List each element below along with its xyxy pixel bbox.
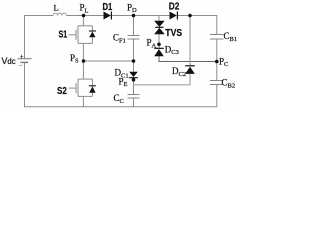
wire junction down to DC1: [133, 61, 135, 72]
node junction PS row middle column: [132, 59, 136, 63]
svg-text:DC3: DC3: [165, 44, 179, 56]
wire CF1 to PS-row junction: [133, 39, 135, 61]
svg-text:CC: CC: [114, 93, 124, 105]
dc source Vdc: [18, 53, 32, 65]
wire CB1 to CB2 through PC: [216, 39, 218, 81]
svg-text:PD: PD: [127, 2, 137, 14]
svg-text:PS: PS: [70, 53, 79, 65]
svg-text:+: +: [20, 53, 24, 61]
diode DC2: [185, 66, 195, 74]
svg-text:CB2: CB2: [222, 78, 236, 90]
switch S2 MOSFET: [69, 79, 93, 96]
wire CC to bottom rail: [133, 98, 135, 107]
svg-text:DC2: DC2: [172, 66, 186, 78]
wire D2 to top-right corner: [178, 15, 218, 17]
node PL: [82, 14, 86, 18]
node PC: [215, 60, 219, 64]
capacitor CB2: [210, 81, 224, 85]
svg-text:Vdc: Vdc: [2, 56, 16, 66]
diode DC3: [154, 48, 164, 56]
node PD: [132, 14, 136, 18]
svg-text:PA: PA: [147, 38, 157, 50]
wire top rail to TVS: [158, 16, 160, 22]
wire PA to DC3: [158, 44, 160, 48]
wire left column lower: [24, 63, 26, 108]
node PA: [157, 43, 161, 47]
wire PL down to S1: [82, 16, 84, 26]
diode D2: [170, 12, 178, 20]
wire bottom rail: [24, 106, 217, 108]
wire PE branch to DC2 anode: [134, 74, 191, 85]
wire DC3 to PC row: [159, 56, 217, 62]
wire left column upper: [24, 15, 26, 59]
wire S1 source to S2 drain through PS: [82, 43, 84, 79]
svg-text:S1: S1: [59, 29, 68, 40]
capacitor CC: [128, 95, 140, 99]
node PE: [132, 78, 136, 82]
capacitor CB1: [210, 35, 224, 40]
svg-text:L: L: [54, 3, 59, 13]
switch S1 MOSFET: [69, 26, 93, 44]
wire S2 source to bottom rail: [82, 96, 84, 107]
svg-text:PL: PL: [80, 3, 89, 15]
svg-text:PC: PC: [219, 56, 228, 68]
svg-text:D2: D2: [169, 2, 180, 13]
TVS bidirectional suppressor: [154, 21, 165, 34]
node PS: [82, 59, 86, 63]
wire TVS to PA: [158, 34, 160, 44]
wire right column top to CB1: [216, 16, 218, 35]
wire PD down to CF1: [133, 16, 135, 36]
wire inductor to D1: [67, 15, 104, 17]
svg-text:TVS: TVS: [165, 28, 182, 39]
svg-text:S2: S2: [57, 86, 67, 97]
diode D1: [104, 12, 112, 20]
wire D2 junction down to DC2: [189, 16, 191, 66]
body diode of S1: [89, 31, 96, 37]
wire D1 to D2: [112, 15, 170, 17]
wire PS to middle column: [84, 60, 134, 62]
inductor L: [53, 13, 67, 15]
svg-text:CB1: CB1: [224, 31, 238, 43]
svg-text:CF1: CF1: [113, 33, 126, 45]
svg-text:D1: D1: [103, 2, 113, 13]
wire top rail left segment: [24, 15, 53, 17]
wire DC1 to PE and down to CC: [133, 78, 135, 95]
body diode of S2: [89, 86, 96, 93]
capacitor CF1: [128, 36, 140, 40]
diode DC1: [129, 72, 138, 78]
wire CB2 to bottom-right corner: [216, 85, 218, 108]
node junction after D2: [188, 14, 192, 18]
